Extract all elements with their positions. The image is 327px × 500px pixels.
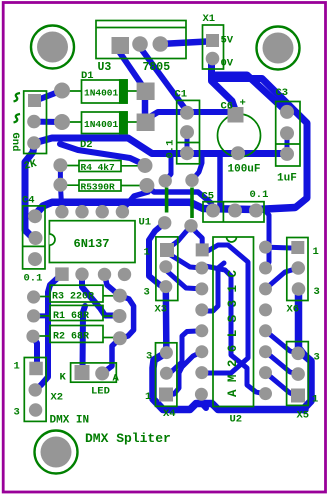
capacitor C1 outline: [177, 100, 200, 163]
svg-text:X6: X6: [287, 304, 300, 316]
wire D2 cathode to C1.1 to C6+: [148, 112, 236, 118]
svg-text:C1: C1: [175, 89, 188, 101]
svg-text:1N4001: 1N4001: [84, 119, 119, 130]
diode D1 outline: [82, 80, 128, 103]
pad U2.L4: [195, 303, 208, 316]
wire U2 R7 to X6.1: [266, 373, 297, 396]
svg-text:+: +: [240, 98, 246, 110]
wire U2.L4 stub up inner: [203, 263, 224, 311]
pad U3.2: [132, 36, 148, 52]
svg-text:0.1: 0.1: [165, 140, 177, 159]
pad U2.R4: [259, 303, 272, 316]
wire branch river to R4.2: [60, 144, 143, 164]
pad C3.1: [280, 105, 294, 119]
svg-text:1: 1: [145, 391, 151, 403]
resistor R5 outline: [79, 180, 121, 191]
connector Gnd outline: [24, 91, 47, 154]
wire U1 pin1 to R1.1 to X2.2: [35, 274, 62, 390]
svg-text:K: K: [60, 372, 67, 384]
wire X5.3 down right side to bus: [299, 289, 312, 410]
svg-text:D2: D2: [80, 139, 93, 151]
pad C5.3: [249, 204, 263, 218]
svg-text:C3: C3: [276, 87, 289, 99]
pad X5.3: [292, 282, 306, 296]
pad X6.3: [291, 347, 305, 361]
svg-text:R3 220R: R3 220R: [52, 292, 94, 303]
wire via B top to river: [192, 157, 202, 180]
pad X5.2: [291, 261, 305, 275]
wire U2 R3 to X5.2: [266, 268, 299, 289]
pad C4.2: [29, 231, 43, 245]
wire via B bottom to X3.1: [170, 226, 191, 247]
svg-text:3: 3: [314, 286, 320, 298]
pad via A bottom: [158, 216, 171, 229]
pad U2.L7: [195, 366, 208, 379]
svg-text:DMX IN: DMX IN: [50, 415, 90, 427]
pad R5.1: [53, 178, 67, 192]
pad U1.1 square: [55, 267, 68, 281]
diode D2 outline: [82, 112, 128, 134]
connector X2 outline: [24, 358, 46, 422]
pad X3.3: [159, 280, 172, 293]
svg-text:1: 1: [14, 361, 20, 373]
capacitor C3 outline: [276, 102, 300, 167]
connector X1 outline: [203, 25, 224, 69]
pad R4.2: [138, 158, 153, 173]
wire C3.2 to C3.3: [285, 133, 290, 152]
svg-text:X2: X2: [51, 392, 64, 404]
wire river to via A: [165, 155, 171, 181]
pad U2.L5: [195, 324, 208, 337]
pad U2.R2: [259, 262, 272, 275]
pad C3.2: [280, 126, 294, 140]
wire 0V branch right edge down to rail: [214, 79, 307, 208]
pad U1.2: [75, 268, 88, 281]
pad X2.3: [29, 403, 42, 416]
wire U2.L6 to X4.1: [170, 352, 202, 395]
pad U2.R3: [259, 282, 272, 295]
pad C1.2: [180, 125, 194, 139]
pad C1.3: [180, 146, 194, 160]
connector X4 outline: [156, 343, 177, 407]
wire left thick Gnd.3 to C4.2: [25, 145, 36, 238]
jumper wire link B: [190, 188, 194, 219]
polarity squiggle 1: [14, 93, 21, 102]
svg-text:0.1: 0.1: [250, 189, 269, 201]
wire U1 pad4 to band A: [122, 192, 148, 210]
wire U2 R5 to X6.3: [266, 331, 299, 354]
lead lines D1: [63, 90, 82, 92]
pad R1.2: [113, 309, 127, 323]
pad via B bottom: [184, 219, 197, 232]
svg-text:C6: C6: [221, 101, 234, 113]
lead lines D2: [63, 121, 82, 123]
wire X3.2 to U2 pad L3: [166, 268, 202, 289]
lead lines R3: [35, 296, 50, 298]
pad Gnd.2: [27, 115, 41, 129]
jumper wire link A: [165, 188, 169, 213]
connector X3 outline: [156, 237, 178, 301]
wire via B bottom to U2 pin1: [191, 226, 202, 245]
pad R3.2: [113, 289, 127, 303]
svg-text:U1: U1: [139, 217, 152, 229]
pad X6.2: [291, 367, 305, 381]
pad D1.1: [54, 83, 70, 99]
wire C1.2 to C1.3: [185, 132, 190, 153]
pad LED K square: [75, 365, 90, 380]
pad R2.1: [26, 330, 39, 343]
pad U2.1 square: [196, 243, 209, 256]
lead lines R2: [35, 335, 50, 337]
pad X1.1 square: [206, 34, 219, 47]
svg-text:C5: C5: [202, 191, 215, 203]
pad X1.2: [206, 52, 220, 66]
wire X4.3 to bottom ground bus: [153, 353, 305, 410]
svg-text:0.1: 0.1: [24, 273, 43, 285]
svg-text:DMX Spliter: DMX Spliter: [85, 431, 171, 446]
IC U2 outline: [213, 237, 254, 407]
wire R2.1 down to X2.1: [33, 337, 37, 366]
svg-text:A: A: [113, 373, 120, 385]
svg-text:X1: X1: [203, 13, 216, 25]
wire D1 cathode to D2 cathode: [142, 95, 149, 118]
pad U1.8: [55, 205, 68, 218]
wire U2 internal L2 branch: [205, 266, 263, 394]
wire ground river Gnd.3 to C1.3 C6- C3.3: [34, 138, 283, 154]
svg-text:1uF: 1uF: [277, 173, 297, 185]
lead lines R1: [35, 315, 50, 317]
pad U2.L6: [195, 345, 208, 358]
regulator U3 outline: [96, 21, 186, 59]
wire via A bottom to X3.3: [149, 223, 166, 287]
svg-text:5V: 5V: [221, 35, 234, 47]
pad U2.R6: [259, 345, 272, 358]
svg-text:1: 1: [313, 246, 319, 258]
wire X1.2 branch to C3.1: [212, 75, 285, 110]
wire R1.1 stub: [34, 313, 48, 318]
svg-text:R5390R: R5390R: [81, 182, 116, 193]
pad C4.3: [28, 252, 42, 266]
capacitor C5 outline: [203, 202, 264, 222]
pad C6-: [231, 146, 245, 160]
pad C5.1: [206, 204, 220, 218]
connector X5 outline: [287, 342, 309, 406]
pad D2.1: [54, 114, 70, 130]
wire X3.3 to X4.3: [163, 287, 170, 353]
svg-text:3: 3: [14, 407, 20, 419]
capacitor C4 outline: [23, 206, 45, 269]
LED outline: [71, 363, 117, 382]
pad X2.2: [29, 383, 42, 396]
svg-text:R4 4k7: R4 4k7: [81, 162, 116, 173]
wire X3.1 to U2 pad L2: [169, 254, 202, 268]
pad X3.2: [159, 260, 172, 273]
svg-text:1: 1: [144, 247, 150, 259]
svg-text:Gnd: Gnd: [9, 133, 21, 152]
pad U2.L3: [195, 282, 208, 295]
svg-text:D1: D1: [81, 70, 94, 82]
pad R1.1: [27, 309, 40, 322]
pad X4.1 square: [159, 388, 173, 402]
mounting hole top-right: [257, 27, 300, 70]
wire Gnd.2 to D2.1: [34, 119, 62, 125]
pad D2.2 square: [137, 114, 155, 132]
wire Gnd.1 to D1.1: [36, 91, 62, 101]
wire river down to C5.1: [216, 156, 220, 209]
svg-text:100uF: 100uF: [228, 164, 261, 176]
wire 5V U3.3 to X1.1: [160, 42, 207, 45]
resistor R2 outline: [50, 326, 103, 343]
wire 0V rail C4.1 across to right: [35, 202, 295, 215]
wire C5.3 down to U2 R2: [256, 211, 269, 269]
wire U1 pad3 up to rail: [100, 201, 105, 212]
svg-text:6N137: 6N137: [74, 237, 110, 251]
svg-text:1: 1: [312, 394, 318, 406]
svg-text:C4: C4: [22, 195, 35, 207]
wire branch to LED K: [83, 306, 86, 370]
pad X2.1 square: [29, 362, 43, 376]
svg-text:U2: U2: [230, 414, 243, 426]
pad U2.R8: [259, 387, 272, 400]
pad U1.3: [98, 268, 111, 281]
pad C4.1: [28, 209, 42, 223]
svg-text:3: 3: [314, 352, 320, 364]
svg-text:0V: 0V: [221, 58, 234, 70]
wire U2 R6 to X6.2: [266, 352, 299, 374]
lead lines R4: [62, 165, 79, 167]
svg-text:7805: 7805: [143, 61, 171, 74]
lead lines R5: [62, 184, 79, 186]
pad LED A: [95, 366, 109, 380]
svg-text:LED: LED: [91, 386, 110, 398]
svg-text:R2 68R: R2 68R: [53, 332, 89, 343]
pad C5.2: [228, 204, 242, 218]
svg-text:U3: U3: [98, 61, 112, 74]
wire R3.2 loop to R2.2: [120, 296, 134, 339]
svg-text:X4: X4: [163, 408, 176, 420]
svg-text:X5: X5: [297, 410, 310, 422]
mounting hole top-left: [31, 26, 74, 69]
mounting hole bottom-left: [35, 431, 78, 474]
resistor R4 outline: [79, 161, 121, 172]
pad X6.1 square: [291, 389, 305, 403]
wire band A R5.2 to C5.1: [147, 186, 213, 210]
pad X5.1 square: [291, 241, 304, 254]
capacitor C6 outline: [218, 114, 261, 157]
resistor R1 outline: [50, 305, 103, 320]
wire X1.2 to C6+: [212, 59, 236, 111]
wire U3.1 to D1 cathode: [118, 50, 144, 88]
pad U1.7: [75, 205, 88, 218]
pad U2.R1: [259, 241, 272, 254]
pad U1.4: [118, 268, 131, 281]
wire U2 pad L8 to bus: [201, 394, 206, 408]
pad R5.2: [139, 178, 154, 193]
pad U2.L2: [195, 262, 208, 275]
pad C1.1: [180, 106, 194, 120]
pad U2.R7: [259, 366, 272, 379]
svg-text:3: 3: [146, 351, 152, 363]
wire U2 R1 to X5.1: [266, 245, 292, 251]
pad C3.3: [280, 147, 294, 161]
wire U2 internal L1 to L7: [206, 245, 248, 373]
wire U1 pad2 up to rail: [80, 201, 85, 212]
pad U3.3: [153, 36, 169, 52]
pad R3.1: [27, 290, 40, 303]
wire R4.1 to R5.1 to U1 pin8: [60, 165, 62, 212]
pad via A top: [159, 174, 172, 187]
pad D1.2 square: [137, 83, 155, 101]
svg-text:X3: X3: [155, 304, 168, 316]
pad U1.6: [96, 205, 109, 218]
pad R4.1: [53, 158, 67, 172]
pad X3.1 square: [160, 243, 174, 257]
connector X6 outline: [287, 238, 308, 301]
svg-text:3: 3: [144, 287, 150, 299]
optocoupler U1 6N137 outline: [49, 221, 135, 263]
svg-text:AM26LS31C: AM26LS31C: [226, 270, 240, 397]
wire U2.L5 to X4.2: [166, 331, 201, 374]
wire R2.2 to LED A: [102, 338, 120, 373]
pad Gnd.1 square: [28, 94, 41, 107]
pad C6+ square: [228, 107, 244, 123]
pad U3.1 square: [112, 37, 130, 54]
pad U1.5: [116, 205, 129, 218]
resistor R3 outline: [50, 285, 103, 302]
pad Gnd.3: [27, 136, 41, 150]
wire U1 pin3 to R3.2: [105, 275, 120, 296]
wire U3.2 to C1.1: [141, 48, 187, 110]
wire U1 pin2 through R3 to R1.2: [82, 274, 120, 315]
pad via B top: [185, 174, 198, 187]
svg-text:1N4001: 1N4001: [84, 88, 119, 99]
pad R2.2: [113, 331, 127, 345]
polarity squiggle 2: [14, 114, 21, 123]
pad U2.L8: [195, 388, 208, 401]
pad X4.3: [160, 346, 173, 359]
pad U2.R5: [259, 324, 272, 337]
svg-text:R1 68R: R1 68R: [53, 311, 89, 322]
pad X4.2: [160, 367, 173, 380]
